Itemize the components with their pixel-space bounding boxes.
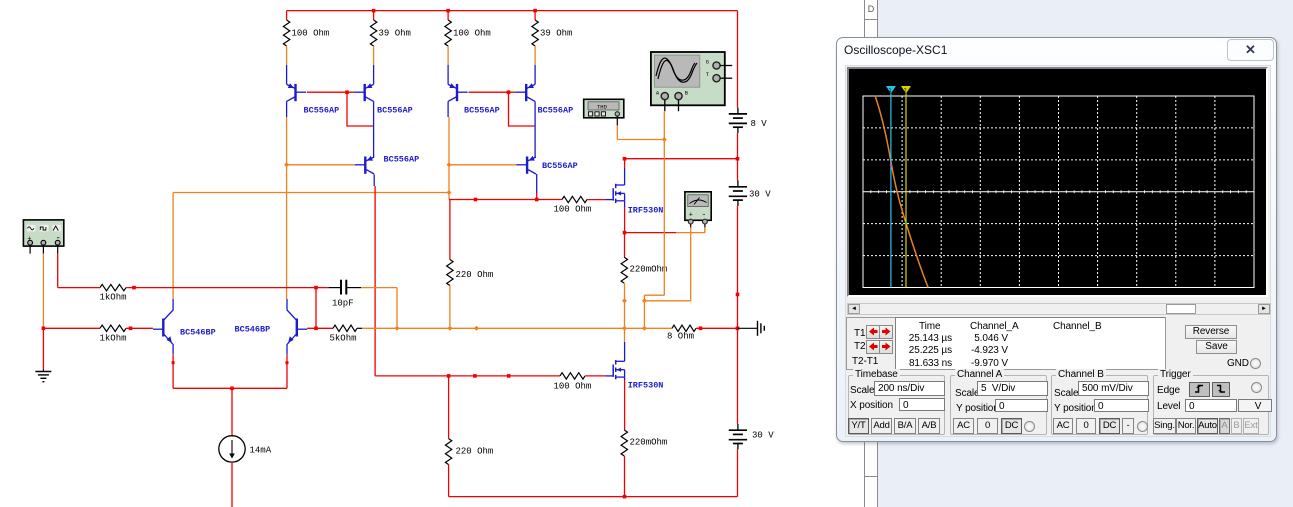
svg-text:IRF530N: IRF530N	[628, 381, 664, 391]
svg-text:14mA: 14mA	[250, 446, 272, 456]
svg-text:BC556AP: BC556AP	[464, 106, 500, 116]
svg-text:BC556AP: BC556AP	[542, 161, 578, 171]
svg-text:BC556AP: BC556AP	[377, 106, 413, 116]
svg-text:1kOhm: 1kOhm	[100, 293, 127, 303]
svg-text:THD: THD	[597, 103, 608, 110]
svg-text:220mOhm: 220mOhm	[630, 438, 668, 448]
svg-text:IRF530N: IRF530N	[628, 206, 664, 216]
svg-text:220 Ohm: 220 Ohm	[456, 270, 494, 280]
svg-text:8 Ohm: 8 Ohm	[667, 332, 694, 342]
svg-text:-: -	[702, 211, 707, 220]
svg-text:8 V: 8 V	[751, 119, 768, 129]
svg-text:2: 2	[904, 88, 907, 94]
svg-text:BC556AP: BC556AP	[304, 106, 340, 116]
svg-text:100 Ohm: 100 Ohm	[453, 29, 491, 39]
svg-text:39 Ohm: 39 Ohm	[540, 29, 572, 39]
svg-text:G: G	[706, 58, 709, 65]
svg-text:30 V: 30 V	[749, 190, 771, 200]
svg-text:100 Ohm: 100 Ohm	[292, 29, 330, 39]
svg-text:39 Ohm: 39 Ohm	[379, 29, 411, 39]
svg-text:BC556AP: BC556AP	[538, 106, 574, 116]
svg-text:5kOhm: 5kOhm	[330, 334, 357, 344]
svg-text:+: +	[689, 212, 693, 220]
svg-text:100 Ohm: 100 Ohm	[554, 382, 592, 392]
svg-text:10pF: 10pF	[332, 299, 354, 309]
svg-text:+: +	[27, 235, 31, 243]
svg-text:BC546BP: BC546BP	[235, 325, 271, 335]
svg-text:BC556AP: BC556AP	[384, 155, 420, 165]
svg-text:1kOhm: 1kOhm	[100, 334, 127, 344]
svg-text:100 Ohm: 100 Ohm	[554, 205, 592, 215]
svg-text:220 Ohm: 220 Ohm	[456, 447, 494, 457]
svg-text:1: 1	[889, 88, 892, 94]
svg-text:BC546BP: BC546BP	[180, 328, 216, 338]
svg-text:220mOhm: 220mOhm	[630, 265, 668, 275]
svg-text:30 V: 30 V	[752, 431, 774, 441]
svg-text:-: -	[56, 233, 61, 243]
